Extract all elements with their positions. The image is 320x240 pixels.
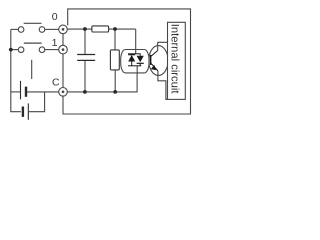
wire phototransistor emitter to internal circuit box [158,71,168,100]
wire row0 right to terminal 0 [45,28,59,30]
wire battery upper branch left [11,91,20,93]
wire link terminal 1 to terminal C [62,54,64,87]
junction node capacitor bottom [83,90,87,94]
wire row0 left [11,28,18,30]
resistor R1 [92,26,109,32]
wire row1 right to terminal 1 [45,49,59,51]
wire common row from terminal C to optocoupler riser [67,73,137,92]
junction node capacitor top [83,27,87,31]
wire top rail from terminal 0 around right side to bottom [63,9,191,114]
wire left rail [11,29,21,111]
junction node resistor R2 top [113,27,117,31]
wire resistor R1 to LED drop [109,28,136,30]
terminal C [59,88,68,97]
switch S0 [18,23,44,32]
LED D1 anti-parallel pair [128,50,144,73]
terminal 0 [59,25,68,34]
wire mid row terminal 0 to resistor R1 [67,28,92,30]
wire capacitor bottom lead [84,60,86,92]
wire capacitor top lead [84,29,86,54]
svg-text:0: 0 [52,11,58,23]
wire battery link down branch [29,92,45,112]
optocoupler U1 LED enclosure [121,50,149,73]
capacitor C1 [77,55,95,61]
wire battery upper branch right to terminal C [27,91,59,93]
battery B2 lower cell [23,103,28,119]
internal circuit box [168,22,186,99]
phototransistor Q1 [151,50,158,71]
LED top lead inside stadium [135,50,137,54]
LED bottom lead inside stadium [136,66,138,73]
wire resistor R2 bottom lead [114,70,116,92]
resistor R2 [110,50,119,70]
svg-text:C: C [52,77,60,89]
terminal 1 [59,45,68,54]
optocoupler U1 phototransistor enclosure [149,46,168,76]
wire row1 left [11,49,18,51]
wire link terminal 0 to terminal 1 [62,34,64,46]
wire LED top lead upper part [135,29,137,49]
wire phototransistor collector to internal circuit box [158,42,168,50]
svg-text:1: 1 [52,37,58,49]
battery B1 upper cell [21,81,27,99]
svg-text:Internal circuit: Internal circuit [169,24,181,95]
wire resistor R2 top lead [114,29,116,50]
wire stub below switch row 1 [31,60,33,79]
junction node on left rail at row 1 [9,48,13,52]
switch S1 [18,43,44,52]
junction node resistor R2 bottom [113,90,117,94]
